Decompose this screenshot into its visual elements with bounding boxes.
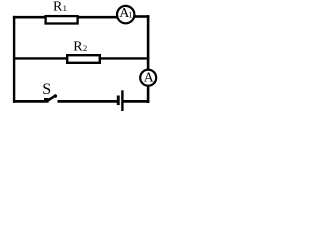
svg-text:S: S [42,81,51,98]
wire bottom-left segment (corner to switch) [13,100,45,103]
svg-text:2: 2 [83,43,87,53]
switch S pivot [44,98,49,103]
wire right vertical upper (corner to ammeter A) [147,15,150,70]
battery positive plate (long) [121,90,123,111]
wire top-right segment (A1 to right corner) [135,15,150,18]
svg-text:1: 1 [63,3,67,13]
wire top-left segment [13,16,46,19]
switch S lever [47,94,57,101]
wire middle branch left segment [13,57,67,59]
resistor R2 [67,55,100,63]
ammeter A [140,70,156,86]
wire right vertical lower (ammeter A to bottom corner) [147,86,150,103]
svg-text:R: R [53,0,63,15]
wire bottom-middle segment (switch to battery) [58,100,118,103]
label R2 [73,40,87,55]
resistor R1 [46,16,78,23]
svg-text:1: 1 [128,10,132,20]
label R1 [53,0,67,15]
ammeter A1 [117,6,134,23]
svg-text:A: A [144,70,155,85]
svg-text:R: R [73,40,83,55]
wire middle branch right segment [100,57,149,59]
label S [42,81,51,98]
wire top-middle segment (R1 to A1) [78,16,117,19]
wire left vertical [13,16,15,103]
wire bottom-right segment (battery to right corner) [123,100,149,103]
battery negative plate (short) [117,96,120,106]
